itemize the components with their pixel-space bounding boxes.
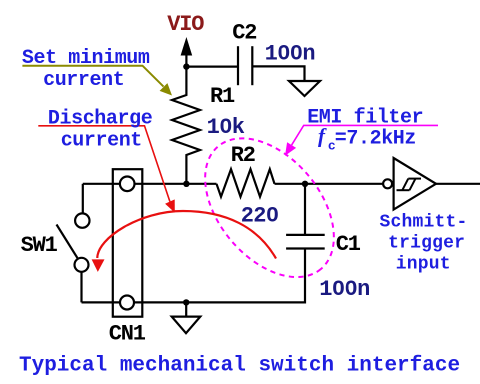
svg-text:current: current [43,69,124,92]
svg-text:R2: R2 [231,143,255,168]
svg-text:C1: C1 [336,232,361,257]
svg-text:trigger: trigger [388,233,465,253]
svg-text:Schmitt-: Schmitt- [380,212,468,232]
svg-text:input: input [396,255,451,275]
svg-text:Discharge: Discharge [48,108,153,131]
svg-text:CN1: CN1 [109,322,146,347]
svg-text:VIO: VIO [167,12,204,37]
svg-text:100n: 100n [319,277,369,302]
svg-text:R1: R1 [210,84,235,109]
svg-text:=7.2kHz: =7.2kHz [335,128,416,151]
svg-text:current: current [61,129,142,152]
svg-text:SW1: SW1 [21,233,58,258]
svg-text:Typical mechanical switch inte: Typical mechanical switch interface [19,354,460,377]
svg-text:C2: C2 [232,21,256,46]
svg-text:100n: 100n [265,41,315,66]
svg-text:Set minimum: Set minimum [22,47,150,70]
